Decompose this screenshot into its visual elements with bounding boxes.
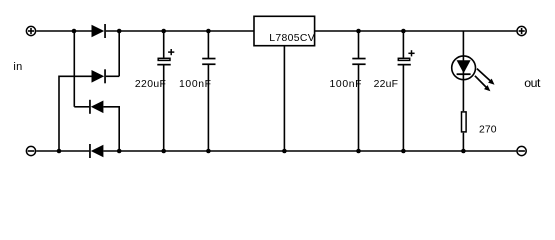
terminal J1 + input <box>26 26 35 35</box>
junction dot C3 bottom (358.5,151) <box>356 149 361 154</box>
LED arrow 2 <box>475 76 491 92</box>
wire regulator ground pin <box>283 46 285 151</box>
junction dot C2 top (208.4,31) <box>206 29 211 34</box>
regulator U1 box <box>254 16 315 45</box>
wire vertical node A to D3 cathode <box>73 31 75 107</box>
terminal J3 + output <box>517 26 526 35</box>
wire top rail right segment <box>315 30 517 32</box>
wire row2 right segment up to node B <box>106 75 119 77</box>
terminal J2 - input <box>26 146 35 155</box>
svg-text:270: 270 <box>479 124 497 135</box>
LED D5 <box>452 31 476 111</box>
diode D3 <box>89 100 103 114</box>
svg-text:220uF: 220uF <box>135 79 166 90</box>
wire top rail left segment <box>36 30 91 32</box>
LED arrow 1 <box>477 69 495 85</box>
capacitor C4 22uF <box>398 31 415 151</box>
wire vertical node B to D2 cathode <box>118 31 120 76</box>
terminal J4 - output <box>517 146 526 155</box>
wire row3 right segment down to node D <box>103 107 119 151</box>
wire row3 left segment <box>74 106 89 108</box>
diode D4 <box>89 144 103 158</box>
svg-text:100nF: 100nF <box>330 79 362 90</box>
junction dot C1 top (163.7,31) <box>161 29 166 34</box>
junction dot C4 top (403.4,31) <box>401 29 406 34</box>
wire top rail middle segment <box>106 30 254 32</box>
node A junction dot (74,31) <box>72 29 77 34</box>
svg-text:100nF: 100nF <box>179 79 211 90</box>
svg-text:out: out <box>524 76 541 90</box>
svg-text:in: in <box>13 61 22 73</box>
junction dot C3 top (358.5,31) <box>356 29 361 34</box>
junction dot C4 bottom (403.4,151) <box>401 149 406 154</box>
capacitor C2 100nF <box>202 31 215 151</box>
node C junction dot (59,151) <box>57 149 62 154</box>
junction dot R1 bottom (463.4,151) <box>461 149 466 154</box>
svg-text:L7805CV: L7805CV <box>269 33 315 44</box>
diode D2 <box>92 69 106 83</box>
resistor R1 <box>462 112 467 151</box>
junction dot C1 bottom (163.7,151) <box>161 149 166 154</box>
diode D1 <box>92 24 106 38</box>
node D junction dot (119.2,151) <box>117 149 122 154</box>
wire bottom rail left segment <box>36 150 89 152</box>
capacitor C3 100nF <box>352 31 365 151</box>
capacitor C1 220uF <box>157 31 174 151</box>
junction dot ground pin (284.4,151) <box>282 149 287 154</box>
junction dot C2 bottom (208.4,151) <box>206 149 211 154</box>
node B junction dot (119,31) <box>117 29 122 34</box>
wire bottom rail right segment <box>103 150 516 152</box>
wire row2 left segment with corner <box>59 76 92 151</box>
svg-text:22uF: 22uF <box>374 79 398 90</box>
